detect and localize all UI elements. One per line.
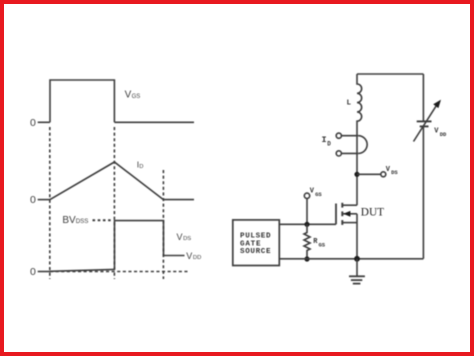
node label VDS (177, 232, 192, 242)
wire VGS pulse (50, 80, 114, 122)
svg-text:DD: DD (440, 131, 447, 138)
wire VGS baseline right (114, 121, 194, 123)
wire VDS tap (357, 173, 381, 175)
svg-text:D: D (139, 164, 143, 170)
svg-text:D: D (327, 141, 331, 148)
svg-text:V: V (386, 166, 391, 174)
svg-text:GATE: GATE (240, 240, 261, 248)
transistor DUT N-MOSFET (336, 203, 357, 259)
wire bottom rail (279, 258, 423, 260)
node VDS terminal (381, 172, 386, 177)
node ground junction (354, 256, 360, 262)
node label VGS terminal (310, 188, 323, 198)
battery VDD source (414, 100, 442, 142)
node gate junction (304, 222, 309, 227)
node label ID probe (322, 135, 332, 148)
wire ID baseline left (38, 199, 50, 201)
wire dashed timing line t2 (113, 127, 115, 279)
wire VDD branch lower (422, 127, 424, 258)
wire dashed timing line t3 (162, 170, 164, 279)
svg-text:DS: DS (183, 236, 191, 242)
svg-text:BV: BV (62, 215, 76, 226)
wire gate lead (279, 223, 336, 225)
svg-text:DS: DS (391, 169, 398, 176)
wire VDS on-state line (50, 269, 115, 271)
wire zero solid segment (38, 271, 50, 273)
wire top rail (357, 73, 423, 75)
svg-text:L: L (347, 99, 352, 107)
svg-text:0: 0 (30, 266, 36, 278)
svg-text:GS: GS (319, 241, 326, 248)
node label ID (137, 159, 144, 170)
svg-text:GS: GS (315, 191, 322, 198)
wire drain vertical (356, 135, 358, 205)
svg-text:R: R (313, 238, 318, 246)
svg-text:0: 0 (30, 117, 36, 129)
pulsed gate source box (233, 220, 279, 266)
wire BVDSS dotted leader (93, 219, 113, 221)
wire dashed timing line t1 (49, 127, 51, 279)
ground (349, 259, 365, 284)
node label VDD source (434, 127, 447, 138)
svg-text:DD: DD (193, 255, 201, 261)
svg-text:V: V (310, 188, 315, 196)
current probe ID loop (336, 133, 367, 156)
svg-text:V: V (125, 90, 132, 101)
svg-text:V: V (434, 127, 439, 135)
svg-text:GS: GS (132, 94, 141, 100)
wire ID baseline right (163, 199, 194, 201)
inductor L (347, 74, 362, 135)
svg-text:DSS: DSS (76, 218, 89, 225)
node VGS terminal (304, 193, 309, 198)
svg-text:V: V (186, 251, 192, 261)
svg-text:0: 0 (30, 194, 36, 206)
wire VGS baseline left (38, 121, 50, 123)
svg-text:SOURCE: SOURCE (240, 248, 271, 256)
node label BVDSS (62, 215, 88, 226)
wire zero dashed baseline (50, 271, 190, 273)
node RGS bottom junction (304, 256, 309, 261)
svg-text:PULSED: PULSED (240, 233, 271, 241)
wire ID triangle waveform (50, 162, 163, 200)
wire VDS step waveform (115, 221, 185, 270)
node label VGS (125, 90, 141, 101)
wire VDD branch upper (422, 74, 424, 121)
wire VGS terminal to gate node (306, 199, 308, 225)
svg-text:V: V (177, 232, 183, 242)
node label RGS (313, 238, 326, 248)
node label VDS terminal (386, 166, 399, 176)
node label VDD (186, 251, 201, 261)
node drain junction (354, 172, 359, 177)
resistor RGS (304, 224, 310, 259)
svg-text:I: I (322, 135, 327, 145)
svg-text:DUT: DUT (361, 207, 384, 219)
